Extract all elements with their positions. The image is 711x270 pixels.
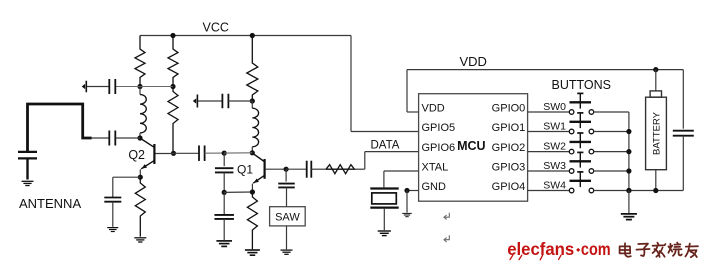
svg-text:GPIO3: GPIO3 (492, 162, 526, 174)
capacitor C6 (198, 145, 200, 161)
capacitor C9 (306, 161, 308, 178)
svg-text:Q1: Q1 (237, 163, 253, 177)
svg-text:SW4: SW4 (543, 180, 566, 192)
svg-text:GPIO2: GPIO2 (492, 142, 526, 154)
capacitor C1 (108, 79, 110, 94)
wire C2 to ground (26, 158, 28, 179)
svg-text:BATTERY: BATTERY (652, 111, 663, 155)
node F (R5/L2/C5) (250, 98, 255, 103)
svg-text:GPIO6: GPIO6 (422, 142, 456, 154)
antenna feed wire (thick) (28, 104, 92, 152)
switch SW1 (569, 129, 574, 134)
svg-text:VDD: VDD (460, 54, 487, 69)
node E (Q2 emitter) (138, 175, 143, 180)
svg-text:XTAL: XTAL (422, 162, 449, 174)
wire C3 to node C (116, 137, 140, 139)
wire VDD to C11 (682, 70, 684, 129)
wire node K down (285, 169, 287, 181)
switch SW2 (569, 149, 574, 154)
inductor L1 (139, 87, 141, 95)
wire C4 to ground (112, 202, 114, 227)
wire antenna to C3 (92, 137, 109, 139)
wire node E left (113, 176, 141, 178)
switch SW3 (569, 169, 574, 174)
wire GPIO0 to SW0 (528, 111, 570, 113)
wire node H to node G (224, 152, 252, 154)
svg-text:SW0: SW0 (543, 101, 566, 113)
switch SW4 (569, 188, 574, 193)
wire GPIO3 to SW3 (528, 170, 570, 172)
svg-text:VCC: VCC (203, 21, 229, 35)
resistor R4 (135, 177, 145, 236)
svg-text:GPIO1: GPIO1 (492, 122, 526, 134)
switch SW0 (569, 110, 574, 115)
node bus junction (626, 188, 631, 193)
capacitor C10 (SAW coupling) (278, 183, 295, 185)
wire R7 to GPIO6 pin (355, 168, 365, 170)
wire VDD rail (407, 69, 683, 71)
node VDD-battery (653, 67, 658, 72)
svg-text:MCU: MCU (457, 139, 485, 153)
node H (feedback tap) (222, 151, 227, 156)
wire button ground bus (628, 112, 630, 191)
wire C9 to R7 (311, 168, 326, 170)
node C (Q2 collector) (137, 135, 142, 140)
input terminal T2 (196, 95, 198, 108)
ground C4 (107, 227, 118, 229)
node K (SAW tap on Q1 base) (284, 167, 289, 172)
capacitor C2 (antenna) (18, 151, 37, 153)
resistor R3 (168, 87, 178, 154)
wire input line to node A and node B (116, 86, 173, 88)
crystal X1 (370, 187, 398, 189)
ground MCU (402, 212, 411, 214)
transistor Q1 (253, 153, 264, 161)
transistor Q2 (141, 139, 154, 148)
node B (R2/R3) (170, 84, 175, 89)
node bus junction (626, 129, 631, 134)
wire VDD to battery (655, 70, 657, 91)
capacitor C5 (221, 94, 223, 109)
wire GND to ground (406, 191, 408, 213)
inductor L2 (251, 101, 253, 108)
return mark 2 (444, 235, 449, 242)
wire crystal to ground (383, 209, 385, 231)
node D (Q2 base) (171, 151, 176, 156)
svg-text:VDD: VDD (422, 103, 445, 115)
node GND (404, 188, 409, 193)
battery BT1 (650, 91, 661, 97)
wire C10 to SAW (286, 187, 288, 206)
wire VCC rail (140, 35, 351, 37)
svg-text:SW3: SW3 (543, 160, 566, 172)
svg-text:ANTENNA: ANTENNA (19, 196, 81, 211)
wire SW2 to bus (594, 151, 629, 153)
MCU U1 box (419, 94, 528, 202)
wire SW3 to bus (594, 170, 629, 172)
wire node D to C6 (174, 152, 199, 154)
svg-text:GPIO5: GPIO5 (422, 122, 456, 134)
wire SAW to ground (286, 226, 288, 249)
node VCC-R2 junction (170, 33, 175, 38)
wire C5 to node F (228, 100, 252, 102)
wire SW0 to bus (594, 111, 629, 113)
node J (Q1 emitter) (250, 189, 255, 194)
svg-text:GPIO0: GPIO0 (492, 103, 526, 115)
svg-text:com: com (581, 239, 611, 259)
wire GPIO1 to SW1 (528, 131, 570, 133)
resistor R6 (247, 192, 257, 249)
ground antenna (22, 180, 34, 182)
wire node I to Q1 emitter (224, 191, 252, 193)
wire XTAL pin to crystal (384, 170, 419, 172)
wire VCC to GPIO5 pin (350, 36, 352, 132)
node bus junction (626, 168, 631, 173)
wire T1 to C1 (87, 86, 109, 88)
resistor R5 (247, 36, 258, 102)
capacitor C3 (108, 131, 110, 146)
capacitor C4 (104, 197, 121, 199)
return mark 1 (444, 213, 449, 220)
input terminal T1 (85, 81, 87, 93)
ground buttons (621, 213, 637, 215)
wire Q1 base to C9 (286, 168, 306, 170)
svg-text:Q2: Q2 (128, 148, 145, 162)
wire bus to ground (628, 191, 630, 214)
node bus junction (626, 149, 631, 154)
resistor R2 (168, 36, 178, 87)
svg-text:SW2: SW2 (543, 141, 566, 153)
node I (emitter rail left) (222, 190, 227, 195)
ground crystal (378, 230, 391, 232)
watermark chinese characters (620, 243, 698, 258)
wire GND pin (407, 190, 419, 192)
wire C11 to bottom net (682, 136, 684, 191)
watermark logo tails (510, 255, 561, 260)
svg-text:SW1: SW1 (543, 121, 566, 133)
ground C8 (216, 240, 232, 242)
node battery-bottom (653, 188, 658, 193)
wire bottom net SW4 row (594, 190, 684, 192)
capacitor C8 (feedback lower) (223, 192, 225, 214)
resistor R7 (DATA) (326, 165, 355, 174)
svg-text:GPIO4: GPIO4 (492, 181, 526, 193)
svg-text:GND: GND (422, 181, 447, 193)
node bus-bottom (626, 188, 631, 193)
node VCC-R5 junction (250, 33, 255, 38)
resistor R1 (135, 36, 145, 87)
SAW resonator box (270, 207, 306, 226)
wire T2 to C5 (198, 100, 223, 102)
wire GPIO2 to SW2 (528, 151, 570, 153)
ground R4 (134, 237, 146, 239)
capacitor C11 (673, 130, 694, 132)
capacitor C7 (feedback upper) (223, 153, 225, 166)
ground R6 (245, 249, 260, 251)
wire GPIO4 to SW4 (528, 190, 570, 192)
wire VDD to VDD pin (406, 70, 408, 112)
wire C6 to node H (205, 152, 225, 154)
svg-text:BUTTONS: BUTTONS (552, 78, 612, 92)
ground SAW (281, 249, 293, 251)
node G (Q1 collector) (250, 150, 255, 155)
svg-text:DATA: DATA (371, 140, 400, 152)
wire SW1 to bus (594, 131, 629, 133)
svg-text:elecfans: elecfans (507, 239, 574, 259)
node A (R1/L1/input) (137, 84, 142, 89)
wire battery to bottom net (655, 170, 657, 191)
svg-text:SAW: SAW (275, 212, 300, 224)
